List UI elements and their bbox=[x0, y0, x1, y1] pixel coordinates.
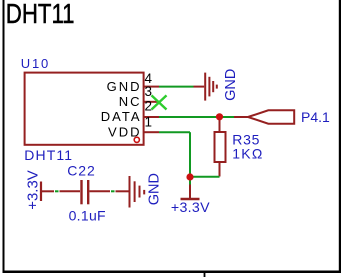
ground symbol bottom bbox=[116, 176, 145, 208]
ground symbol top bbox=[194, 73, 217, 101]
power symbol +3.3V right bbox=[181, 177, 200, 199]
C22 designator label bbox=[67, 162, 95, 178]
GND net label top bbox=[223, 69, 239, 101]
power symbol +3.3V left bbox=[41, 182, 54, 202]
resistor R35 bbox=[215, 117, 226, 177]
IC U10 box bbox=[25, 73, 144, 145]
port P4.1 bbox=[234, 110, 294, 123]
power net label +3.3V left (rotated) bbox=[25, 170, 42, 210]
pin 4 GND of U10 bbox=[107, 71, 159, 94]
junction on VDD wire bbox=[186, 173, 193, 180]
svg-text:0.1uF: 0.1uF bbox=[69, 208, 106, 224]
C22 value label 0.1uF bbox=[69, 208, 106, 224]
svg-text:U10: U10 bbox=[21, 56, 50, 71]
svg-text:DHT11: DHT11 bbox=[6, 0, 75, 30]
pin marker circle on U10 bbox=[134, 137, 139, 142]
power net label +3.3V right bbox=[171, 200, 210, 216]
svg-text:NC: NC bbox=[119, 94, 142, 109]
svg-text:DHT11: DHT11 bbox=[24, 147, 73, 163]
svg-text:1KΩ: 1KΩ bbox=[232, 145, 263, 161]
pin 2 DATA of U10 bbox=[101, 99, 159, 125]
svg-text:GND: GND bbox=[146, 173, 162, 205]
wire VDD net bbox=[159, 132, 220, 177]
capacitor C22 bbox=[60, 180, 111, 204]
GND net label bottom bbox=[146, 173, 162, 205]
svg-text:+3.3V: +3.3V bbox=[25, 170, 42, 210]
wire power to C22 bbox=[55, 190, 59, 192]
pin 3 NC of U10 bbox=[119, 84, 158, 109]
svg-text:GND: GND bbox=[223, 69, 239, 101]
wire pin4 to ground bbox=[159, 86, 194, 88]
title DHT11 bbox=[6, 0, 75, 30]
pin 1 VDD of U10 bbox=[108, 115, 159, 140]
svg-text:DATA: DATA bbox=[101, 109, 142, 124]
junction on DATA wire bbox=[216, 113, 223, 120]
svg-text:C22: C22 bbox=[67, 162, 95, 178]
U10 designator label bbox=[21, 56, 50, 71]
R35 designator label bbox=[232, 132, 260, 148]
wire DATA net bbox=[159, 116, 234, 118]
svg-text:1: 1 bbox=[145, 115, 153, 130]
svg-text:3: 3 bbox=[145, 84, 153, 99]
svg-text:2: 2 bbox=[145, 99, 153, 114]
no-connect X on pin 3 bbox=[152, 95, 167, 109]
svg-text:GND: GND bbox=[107, 79, 142, 94]
R35 value label 1KOhm bbox=[232, 145, 263, 161]
svg-text:+3.3V: +3.3V bbox=[171, 200, 210, 216]
svg-text:P4.1: P4.1 bbox=[301, 109, 330, 125]
port label P4.1 bbox=[301, 109, 330, 125]
wire C22 to ground bbox=[111, 190, 115, 192]
U10 value label DHT11 bbox=[24, 147, 73, 163]
